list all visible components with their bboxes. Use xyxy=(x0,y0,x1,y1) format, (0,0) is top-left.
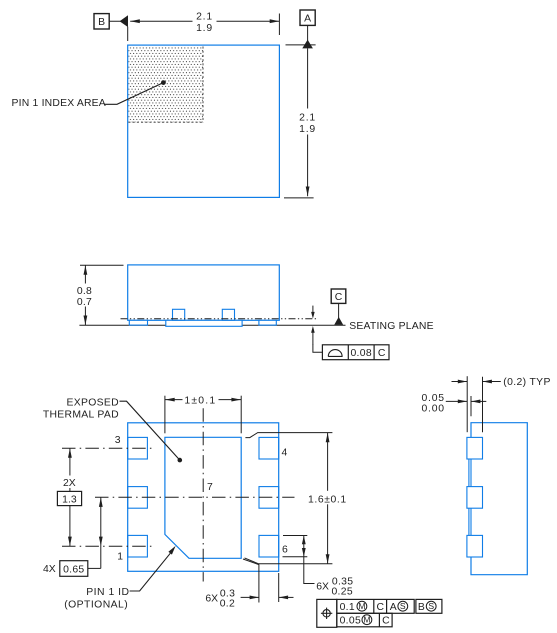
dimension line 1 +/- 0.1 xyxy=(165,399,241,401)
svg-text:A: A xyxy=(390,602,397,613)
svg-text:(OPTIONAL): (OPTIONAL) xyxy=(64,599,128,610)
svg-text:2X: 2X xyxy=(63,478,76,489)
extension line left xyxy=(127,27,129,41)
dimension line 0.05/0.00 xyxy=(446,400,467,402)
dimension 1.6 +/- 0.1 extension lines with jogs xyxy=(245,433,332,438)
svg-text:THERMAL PAD: THERMAL PAD xyxy=(43,409,119,420)
svg-text:PIN 1 INDEX AREA: PIN 1 INDEX AREA xyxy=(12,98,106,109)
detail view: lead 3 xyxy=(467,535,483,557)
svg-text:PIN 1 ID: PIN 1 ID xyxy=(86,587,129,598)
svg-text:C: C xyxy=(335,292,343,303)
horizontal centerline xyxy=(95,496,295,498)
dimension 4X 0.65 xyxy=(100,497,102,568)
feature control frame row 1: 0.1 M C A S B S xyxy=(337,599,414,613)
svg-text:4: 4 xyxy=(282,448,288,459)
top tick of 0.8/0.7 dimension xyxy=(80,264,124,266)
svg-text:B: B xyxy=(418,602,425,613)
dimension 6X 0.3/0.2 extension lines xyxy=(243,559,259,603)
side view: seating plane solid line xyxy=(79,324,345,326)
dimension line 0.8/0.7 xyxy=(84,265,86,325)
dimension 0.05/0.00 mid extension line xyxy=(470,396,472,416)
pin 3 pad xyxy=(128,437,148,459)
top view: package body outline xyxy=(128,45,280,197)
dimension line 6X 0.35/0.25 xyxy=(304,536,315,584)
vertical dimension line 2.1/1.9 xyxy=(307,48,309,196)
dimension line 6X 0.3/0.2 xyxy=(241,596,259,598)
datum B connector line xyxy=(110,20,129,22)
svg-text:1.3: 1.3 xyxy=(62,494,77,505)
pin 3 row centerline xyxy=(62,447,152,449)
feature control frame: position tolerance cell xyxy=(317,599,337,627)
svg-text:(0.2) TYP: (0.2) TYP xyxy=(503,377,550,388)
bottom view: exposed thermal pad outline with pin 1 chamfer xyxy=(165,437,241,558)
seating plane triangle xyxy=(334,317,343,325)
detail view: lead 2 xyxy=(467,487,483,509)
pin 1 row centerline xyxy=(62,545,152,547)
datum A triangle xyxy=(302,40,313,49)
svg-text:C: C xyxy=(382,616,390,627)
detail view: body edge segments between leads xyxy=(470,459,472,536)
svg-text:1.6±0.1: 1.6±0.1 xyxy=(308,494,347,505)
extension line right xyxy=(278,14,280,36)
svg-text:1.9: 1.9 xyxy=(196,23,213,34)
profile of a surface symbol xyxy=(328,350,342,357)
feature control frame row 2: 0.05 M C xyxy=(337,613,392,627)
feature control frame: profile of surface 0.08 C xyxy=(322,345,389,360)
svg-text:6: 6 xyxy=(282,544,288,555)
svg-text:6X: 6X xyxy=(316,581,329,592)
dimension 1 +/- 0.1 extension lines xyxy=(164,396,166,434)
datum C connector line xyxy=(338,303,340,318)
side view: left lead tab xyxy=(129,320,147,325)
top tick of vertical dimension xyxy=(286,44,316,46)
svg-text:EXPOSED: EXPOSED xyxy=(67,397,119,408)
svg-text:0.05: 0.05 xyxy=(340,616,361,627)
leader from EXPOSED THERMAL PAD label xyxy=(120,401,180,460)
position symbol xyxy=(323,610,330,617)
side view: center lead profile left xyxy=(173,309,185,320)
svg-text:0.1: 0.1 xyxy=(340,602,355,613)
side view: center lead profile right xyxy=(222,309,234,320)
pin 1 index area dashed boundary right edge xyxy=(202,47,204,123)
dimension line (0.2) TYP xyxy=(452,381,468,383)
svg-text:1: 1 xyxy=(117,551,123,562)
svg-text:1.9: 1.9 xyxy=(299,124,316,135)
detail view: lead 1 xyxy=(467,437,483,459)
dimension (0.2) TYP extension lines xyxy=(466,376,468,432)
datum B box xyxy=(94,14,109,29)
side view: phantom line at lead tips xyxy=(121,318,318,320)
bottom view: package body outline xyxy=(128,423,279,572)
dimension 2X 1.3 xyxy=(69,448,71,546)
svg-text:6X: 6X xyxy=(205,594,218,605)
svg-text:S: S xyxy=(400,601,406,611)
svg-text:0.2: 0.2 xyxy=(220,598,235,609)
pin 2 pad xyxy=(128,487,148,509)
pin 6 pad xyxy=(259,535,279,557)
svg-text:B: B xyxy=(98,17,105,28)
svg-text:1±0.1: 1±0.1 xyxy=(184,395,216,406)
side view: thermal pad tab xyxy=(166,320,242,326)
svg-text:0.65: 0.65 xyxy=(63,564,84,575)
svg-text:2.1: 2.1 xyxy=(196,11,213,22)
dimension line 1.6 +/- 0.1 xyxy=(327,433,329,564)
pin 1 index area stipple fill xyxy=(129,46,203,122)
leader from PIN 1 INDEX AREA label xyxy=(104,83,163,105)
datum C box xyxy=(331,289,346,303)
svg-text:4X: 4X xyxy=(43,564,56,575)
bottom tick of vertical dimension xyxy=(284,197,314,199)
pin 5 pad xyxy=(259,487,279,509)
pin 4 pad xyxy=(259,437,279,459)
svg-text:A: A xyxy=(304,14,311,25)
datum A connector line xyxy=(307,25,309,41)
svg-text:2.1: 2.1 xyxy=(299,112,316,123)
horizontal dimension line 2.1/1.9 xyxy=(130,20,279,22)
svg-text:0.00: 0.00 xyxy=(421,403,444,414)
leader from PIN 1 ID to chamfer xyxy=(130,552,172,591)
svg-text:0.8: 0.8 xyxy=(77,286,92,297)
svg-text:M: M xyxy=(363,615,370,625)
svg-text:C: C xyxy=(378,348,386,359)
flatness zone lower arrow and leader to frame xyxy=(313,344,323,352)
datum A box xyxy=(300,10,315,25)
side view: package body outline xyxy=(128,265,280,320)
side view: right lead tab xyxy=(259,320,276,325)
svg-text:C: C xyxy=(376,602,384,613)
svg-text:0.7: 0.7 xyxy=(77,297,92,308)
datum B triangle xyxy=(120,15,128,27)
detail view: body outline xyxy=(471,423,527,575)
svg-text:M: M xyxy=(358,601,365,611)
svg-text:0.25: 0.25 xyxy=(331,587,352,598)
svg-text:S: S xyxy=(428,601,434,611)
svg-text:7: 7 xyxy=(207,482,213,493)
svg-text:0.05: 0.05 xyxy=(421,393,444,404)
pin 1 pad xyxy=(128,535,148,557)
dimension 6X 0.35/0.25 ticks xyxy=(283,535,307,537)
vertical centerline xyxy=(202,408,204,581)
pin 1 index area dashed boundary bottom edge xyxy=(128,121,203,123)
flatness zone upper arrow xyxy=(312,306,314,313)
svg-text:3: 3 xyxy=(115,435,121,446)
svg-text:0.08: 0.08 xyxy=(350,348,371,359)
svg-text:SEATING PLANE: SEATING PLANE xyxy=(349,321,433,332)
